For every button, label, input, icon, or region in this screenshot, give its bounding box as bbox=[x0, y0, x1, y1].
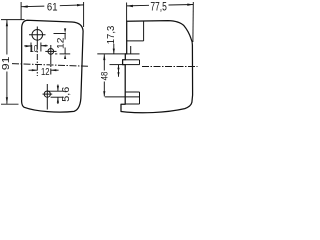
svg-text:10: 10 bbox=[30, 44, 38, 55]
svg-text:17,3: 17,3 bbox=[106, 25, 117, 44]
svg-text:77,5: 77,5 bbox=[150, 1, 167, 13]
svg-text:5,6: 5,6 bbox=[61, 86, 72, 102]
svg-text:12: 12 bbox=[41, 67, 50, 78]
svg-text:91: 91 bbox=[0, 56, 12, 70]
svg-text:61: 61 bbox=[47, 1, 58, 13]
svg-text:48: 48 bbox=[100, 72, 110, 81]
svg-text:12: 12 bbox=[56, 38, 67, 50]
